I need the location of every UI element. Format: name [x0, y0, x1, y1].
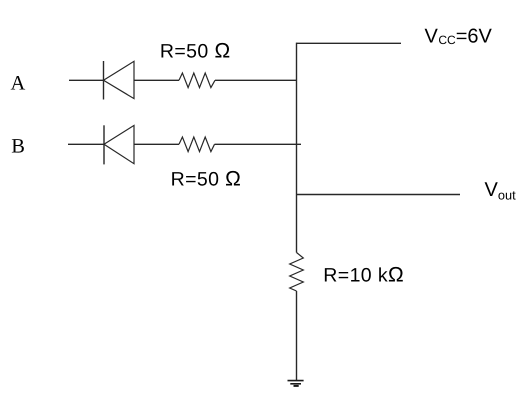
wire resistor R3 to ground — [296, 291, 298, 381]
wire resistor R2 to node X — [215, 143, 302, 145]
wire diode D2 to resistor R2 — [134, 143, 179, 145]
wire resistor R1 to node X — [215, 79, 297, 81]
svg-text:R=50 Ω: R=50 Ω — [160, 39, 231, 62]
wire node X vertical bus — [296, 43, 298, 253]
svg-text:R=50 Ω: R=50 Ω — [171, 168, 242, 191]
wire Vout — [297, 194, 461, 196]
resistor R1 — [179, 73, 215, 88]
resistor R2 — [179, 137, 215, 152]
svg-text:B: B — [11, 135, 25, 157]
svg-text:Vout: Vout — [485, 179, 517, 202]
svg-text:VCC=6V: VCC=6V — [425, 25, 493, 47]
wire diode D1 to resistor R1 — [134, 79, 179, 81]
diode D2 (input B) — [104, 125, 134, 164]
ground — [288, 381, 304, 386]
wire input A — [69, 79, 104, 81]
wire Vcc supply — [297, 42, 402, 44]
svg-text:R=10 kΩ: R=10 kΩ — [323, 263, 404, 286]
svg-text:A: A — [11, 72, 26, 94]
diode D1 (input A) — [104, 61, 135, 100]
resistor R3 — [290, 253, 304, 292]
wire input B — [68, 143, 104, 145]
